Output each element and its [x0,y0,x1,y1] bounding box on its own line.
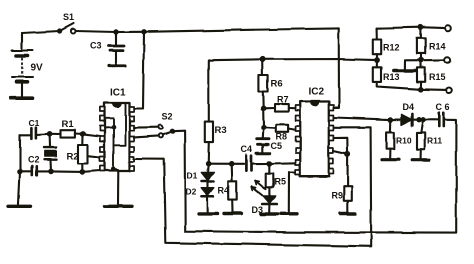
IC2 pins right [329,105,334,174]
wire IC1 supply: rail to IC1 pin 14 [134,32,144,109]
svg-text:R5: R5 [275,177,287,187]
svg-text:IC1: IC1 [110,88,126,99]
LED D3 [252,181,277,213]
R10 ground [382,158,399,161]
resistor R5 [266,164,274,196]
resistor R1 [50,130,83,137]
wire R1 junction to IC1 pin [83,134,101,136]
svg-text:R9: R9 [332,191,344,201]
resistor R11 [417,120,425,158]
wire mid junction to terminal [421,59,445,61]
svg-text:R12: R12 [383,43,400,53]
node R10 top [388,117,394,123]
D3 ground [261,212,278,215]
resistor R12 [373,28,381,60]
resistor R4 [228,164,236,212]
resistor R7 [263,104,296,112]
svg-text:S2: S2 [162,112,173,122]
capacitor C3 [109,32,125,64]
wire rail to C2 [20,170,31,172]
battery B1 9V [12,33,33,97]
node R6 top [259,56,265,62]
svg-text:R11: R11 [427,136,442,146]
capacitor C4 [246,156,269,171]
resistor R2 [78,134,88,172]
node R15 bottom [418,87,424,93]
svg-text:C1: C1 [29,118,40,128]
svg-text:D1: D1 [187,171,198,181]
wire rail to C1 [20,134,31,136]
resistor R10 [387,120,395,158]
svg-text:C5: C5 [271,141,283,151]
wire IC2 pin to R10/D4 [333,118,390,120]
node R14/R15 junction [418,57,424,63]
resistor R14 [417,27,425,60]
wire IC2 ground pin [289,172,296,212]
IC1 internal wire B [114,104,126,146]
IC1 ground [105,205,133,208]
wire top rail down to IC2 pin 16 [333,28,339,107]
svg-text:9V: 9V [31,63,44,74]
wire IC1 pin via outer bottom to IC2 pin [134,127,371,246]
wire IC1 pin to S2 bottom contact [134,136,159,138]
terminal mid [445,57,451,63]
capacitor C6 [439,113,444,127]
C5 ground [257,152,270,155]
node rail/C2 [17,169,23,175]
diode D4 [391,114,419,126]
resistor R9 [344,154,352,211]
node internal A1 [111,125,116,130]
wire S2 common down and along bottom to C6 [172,120,456,233]
resistor R13 [373,60,421,89]
R4 ground [224,212,241,215]
wire junction to ground elbow [404,60,421,68]
node R1/R2 junction [80,132,86,138]
svg-text:C3: C3 [90,41,102,51]
svg-text:S1: S1 [63,12,74,22]
node R8 tap [261,124,267,130]
svg-text:R3: R3 [215,125,227,136]
node R2 bottom [80,169,86,175]
svg-text:R15: R15 [429,72,446,82]
node R3 bottom / D1 top [205,161,211,167]
svg-text:D3: D3 [252,205,264,215]
switch S1 [57,24,75,34]
svg-text:IC2: IC2 [309,87,325,98]
svg-text:C 6: C 6 [436,102,450,112]
capacitor C1 [31,127,49,139]
svg-text:R2: R2 [67,152,79,163]
wire R5 node to IC2 pin [269,162,296,165]
svg-text:D2: D2 [186,187,197,197]
op-amp IC1 body [105,103,130,171]
svg-text:R7: R7 [277,95,289,105]
node at C3 tap [113,29,118,34]
wire R2 to IC1 pin [88,156,101,157]
svg-text:R4: R4 [218,186,230,196]
node R7 tap [260,106,266,112]
node divider top [418,24,424,30]
IC1 ground stem [117,171,119,205]
svg-text:C2: C2 [28,155,40,165]
wire D1 node to C4 [208,163,244,165]
divider ground [393,69,415,73]
wire C2 to IC1 bottom pin [51,171,100,172]
wire mid rail R3 to R12/R13 junction [210,59,378,60]
wire IC2 pin5 to R9 junction [333,151,347,154]
wire S1 to top rail [76,28,339,32]
R9 ground [341,212,356,215]
wire battery to S1 [22,31,59,33]
wire IC2 pin to R9 junction [333,138,347,155]
svg-text:D4: D4 [403,102,415,112]
wire divider top [377,27,445,28]
terminal top [445,25,451,31]
node R5 top [267,161,273,167]
capacitor C5 [257,127,270,151]
node R12/R13 junction [374,57,380,63]
node internal A2 [111,166,116,171]
diode D2 [201,181,214,212]
diode D1 [201,164,214,181]
C3 ground [109,64,125,67]
IC1 pins right [130,107,135,172]
node C1/R1 junction [47,131,53,137]
node crystal bottom [48,169,54,175]
resistor R8 [264,124,296,132]
svg-text:C4: C4 [241,144,253,154]
terminal bottom [446,87,452,93]
svg-text:R10: R10 [396,136,412,146]
node at IC1 supply tap [141,29,146,34]
wire D4 to C6 [419,119,439,121]
node R11 top [420,117,425,122]
IC2 ground [282,212,298,215]
svg-text:R8: R8 [276,132,288,142]
wire R7 tap to R8 tap [262,108,264,127]
IC1 internal wire A [105,118,119,169]
svg-text:R14: R14 [429,42,446,52]
svg-text:R1: R1 [62,119,75,130]
crystal X1 [44,134,57,172]
wire IC1 pin to S2 top contact [134,126,159,129]
R11 ground [412,158,429,161]
node R4 top [229,161,235,167]
resistor R6 [258,59,267,108]
resistor R3 [205,60,213,164]
IC1 pins left [100,107,105,172]
D2 ground [199,212,218,215]
capacitor C2 [32,166,51,175]
svg-text:R13: R13 [383,72,400,82]
op-amp IC2 body [300,102,329,177]
IC2 pins left [296,106,301,175]
wire divider bottom [421,88,446,91]
left rail ground [9,205,31,208]
node D4 cathode [416,117,421,122]
node R9 top [345,151,351,157]
switch S2 [159,125,175,138]
svg-text:R6: R6 [271,79,283,90]
battery ground [11,96,33,100]
resistor R15 [417,60,425,89]
left rail wire [19,135,21,205]
